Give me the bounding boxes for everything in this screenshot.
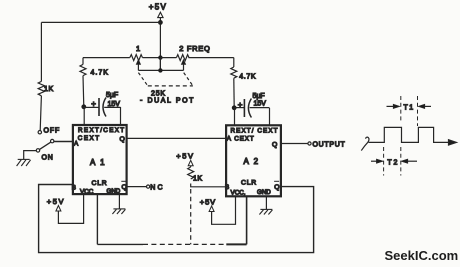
wire A1 CLR down <box>96 194 98 244</box>
wire rail to pot2 <box>160 57 176 59</box>
svg-text:REXT/ CEXT: REXT/ CEXT <box>231 127 279 134</box>
wire rail to wiper line <box>159 58 161 71</box>
wire top horizontal to left branch <box>41 21 160 23</box>
wire A2 CLR up <box>246 196 248 244</box>
wire R2 to node <box>82 76 85 107</box>
node top rail junction <box>158 20 163 25</box>
node A2 timing junction <box>232 105 237 110</box>
wire pot1 to rail <box>143 57 161 59</box>
dashed marker right T1 <box>417 96 419 126</box>
svg-text:OUTPUT: OUTPUT <box>313 141 346 148</box>
svg-text:NC: NC <box>150 185 165 192</box>
wire A2 GND pin <box>265 196 267 209</box>
ground (A2) <box>259 209 272 214</box>
resistor R1 1K <box>38 81 54 95</box>
node NC open terminal <box>147 185 165 192</box>
svg-text:1: 1 <box>136 44 140 53</box>
svg-text:15V: 15V <box>108 101 121 108</box>
svg-text:A 1: A 1 <box>90 158 106 167</box>
label T2 with arrows <box>371 159 417 166</box>
wire A1 Q to A2 A <box>127 137 227 139</box>
svg-text:Q: Q <box>120 136 125 143</box>
op-amp U2 one-shot A2 box <box>225 125 281 196</box>
svg-text:2 FREQ: 2 FREQ <box>179 44 210 53</box>
ground (switch) <box>17 159 31 166</box>
dashed marker middle <box>400 96 402 176</box>
wire R4 to A2 B pin <box>191 184 226 187</box>
wire +5V to A1 VCC pin <box>58 194 83 223</box>
wire pole to A1 pin A <box>54 141 73 143</box>
svg-text:25K: 25K <box>151 91 166 98</box>
svg-text:T1: T1 <box>404 104 415 111</box>
wire left branch down to R1 <box>40 22 42 81</box>
wire R1 to OFF terminal <box>40 96 41 131</box>
node rail/pot junction <box>158 55 162 59</box>
dashed gang link right <box>184 73 193 86</box>
wire node to REXT pin <box>83 107 85 125</box>
svg-text:+5V: +5V <box>47 197 65 206</box>
switch S1 pole and blade <box>36 139 54 161</box>
svg-text:B: B <box>72 185 76 192</box>
capacitor C1 5uF <box>84 92 121 117</box>
wire wiper2 down <box>183 64 185 70</box>
svg-text:A 2: A 2 <box>244 157 260 166</box>
dashed gang link left <box>138 73 147 86</box>
wire CLR link dashed middle <box>143 243 226 245</box>
+5V supply A1 VCC <box>47 197 65 211</box>
svg-text:+5V: +5V <box>200 198 216 207</box>
ground (A1) <box>112 209 125 214</box>
svg-text:- DUAL POT: - DUAL POT <box>140 98 195 105</box>
resistor R3 4.7K <box>231 58 256 81</box>
svg-text:A CEXT: A CEXT <box>227 135 255 142</box>
op-amp U1 one-shot A1 box <box>72 125 127 196</box>
svg-text:VCC,: VCC, <box>231 190 246 197</box>
svg-text:SeekIC.com: SeekIC.com <box>385 248 459 263</box>
svg-text:+5V: +5V <box>149 3 167 12</box>
+5V supply A2 VCC <box>200 198 216 212</box>
dashed gang link bottom <box>148 85 193 87</box>
svg-text:REXT/CEXT: REXT/CEXT <box>78 127 126 134</box>
svg-text:ON: ON <box>42 155 54 162</box>
svg-text:GND: GND <box>107 188 121 195</box>
svg-text:4.7K: 4.7K <box>239 74 256 81</box>
potentiometer section 1 <box>130 44 143 61</box>
wire pot2 right to R3 <box>188 57 233 59</box>
svg-text:4.7K: 4.7K <box>91 70 109 77</box>
svg-text:Q: Q <box>274 184 279 191</box>
wire node to A2 REXT pin <box>234 108 236 125</box>
svg-text:GND: GND <box>257 189 271 196</box>
wire R4 dashed to CLR line <box>190 189 192 244</box>
waveform output trace <box>361 127 456 150</box>
svg-text:OFF: OFF <box>44 128 61 135</box>
node A1 timing junction <box>81 104 86 109</box>
capacitor C2 5uF <box>234 93 269 118</box>
wiper arrow pot1 <box>136 60 140 65</box>
resistor R4 1K pullup <box>176 152 202 183</box>
wiper arrow pot2 <box>181 60 185 65</box>
svg-text:1K: 1K <box>44 86 54 93</box>
wire A2 Qbar feedback loop <box>39 185 314 253</box>
svg-text:1K: 1K <box>193 176 203 183</box>
wire +5V rail vertical <box>159 18 161 71</box>
wire A1 GND pin <box>118 194 120 209</box>
resistor R2 4.7K <box>80 58 109 77</box>
potentiometer section 2 <box>176 44 210 61</box>
svg-text:T2: T2 <box>387 159 399 166</box>
wire +5V to A2 VCC pin <box>212 196 236 224</box>
svg-text:Q: Q <box>122 184 127 191</box>
svg-text:B: B <box>225 184 229 191</box>
svg-text:5μF: 5μF <box>106 92 118 99</box>
switch S1 OFF terminal <box>38 128 60 135</box>
svg-text:VCC: VCC <box>80 189 94 196</box>
node OUTPUT open terminal <box>308 141 346 148</box>
wire A2 Q to output <box>281 143 308 145</box>
wire ON terminal to ground <box>24 151 37 160</box>
wire CLR link solid right <box>226 243 246 245</box>
label 25K dual pot <box>140 91 195 105</box>
svg-text:CEXT: CEXT <box>78 135 101 142</box>
wire CLR link solid left <box>97 243 143 245</box>
dashed marker left T2 <box>383 147 385 176</box>
+5V supply top <box>149 3 167 18</box>
svg-text:+5V: +5V <box>176 152 194 161</box>
wire A1 Qbar to NC <box>127 186 147 188</box>
svg-text:Q: Q <box>272 142 277 149</box>
wire C2 right plate to A2 CEXT pin <box>269 108 271 125</box>
wire pot chain top left <box>83 57 130 59</box>
wire C1 right plate to CEXT pin <box>120 107 122 125</box>
node wiper tie junction <box>158 68 162 72</box>
wire R3 to node <box>233 78 235 108</box>
svg-text:5μF: 5μF <box>253 93 265 100</box>
svg-text:CLR: CLR <box>92 180 108 187</box>
wire wiper tie line <box>138 69 183 71</box>
svg-text:15V: 15V <box>254 101 267 108</box>
svg-text:CLR: CLR <box>241 180 257 187</box>
wire wiper1 down <box>137 64 139 70</box>
label T1 with arrows <box>387 104 432 111</box>
